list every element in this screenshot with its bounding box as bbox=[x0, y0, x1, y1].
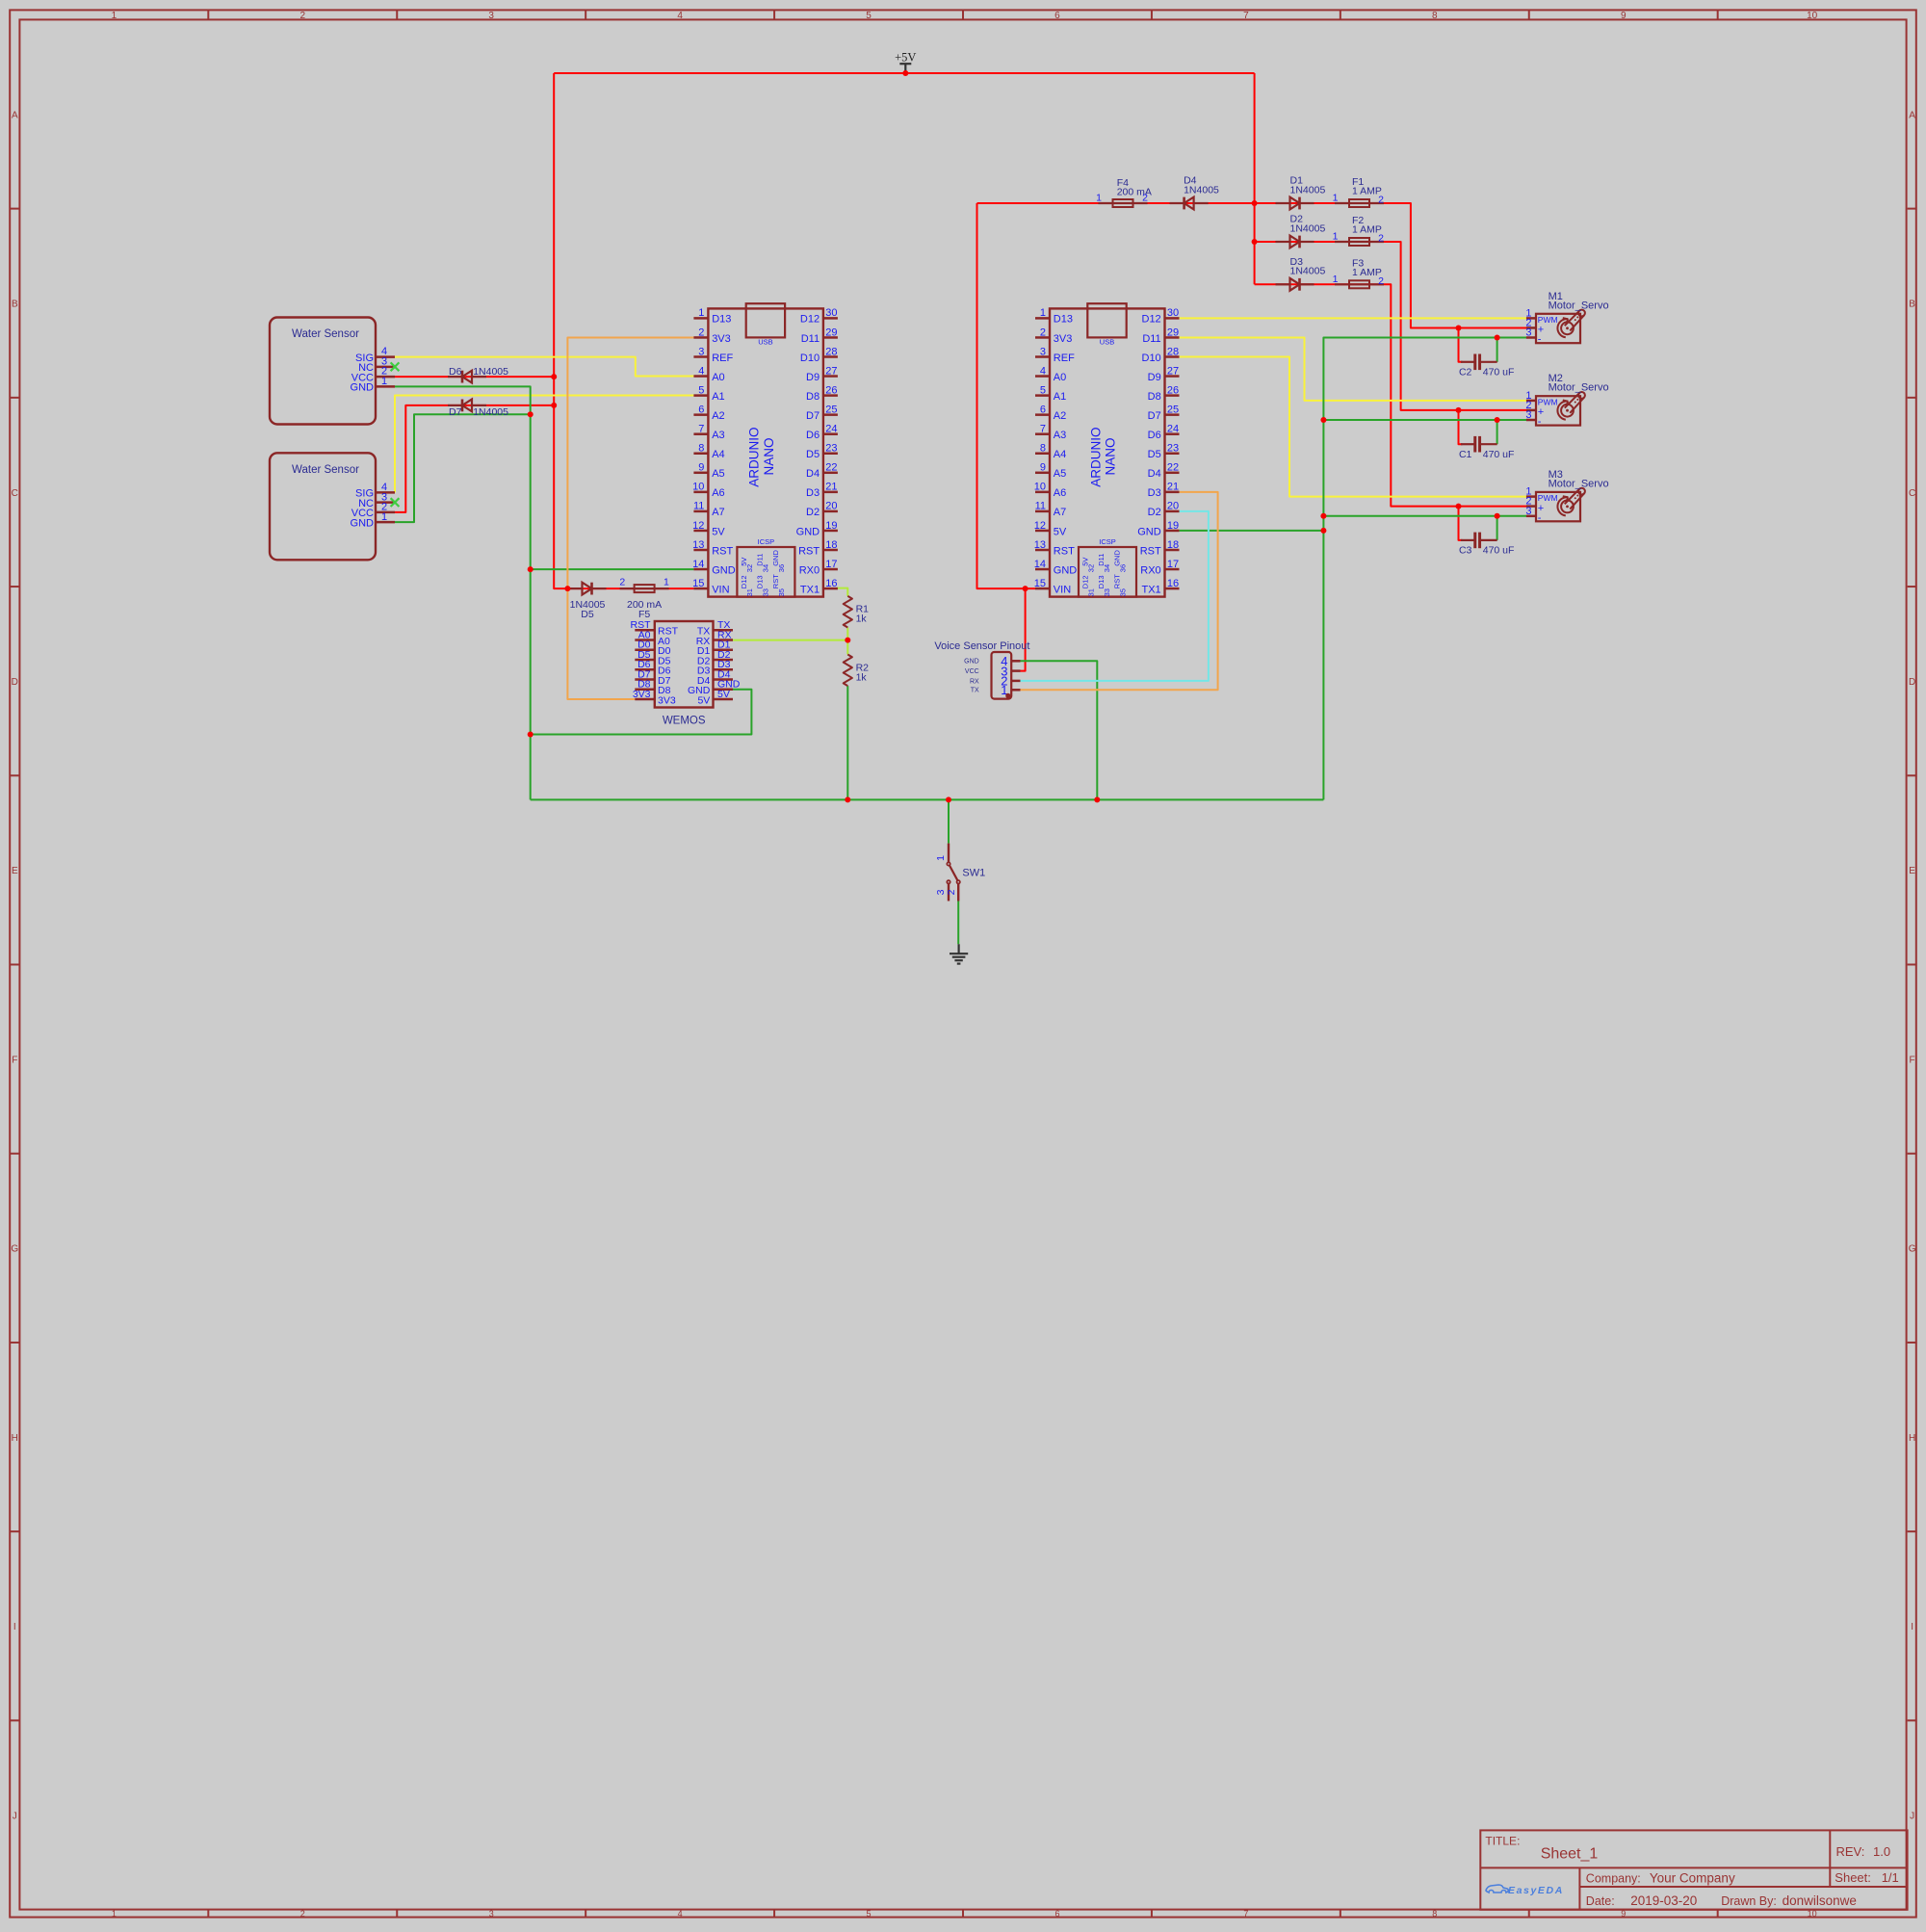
svg-text:3: 3 bbox=[1525, 506, 1531, 517]
junction D6/+5V bbox=[551, 374, 557, 379]
svg-text:D5: D5 bbox=[581, 609, 594, 620]
svg-text:Water Sensor: Water Sensor bbox=[292, 328, 359, 340]
svg-text:D12: D12 bbox=[1081, 575, 1090, 588]
ground symbol bbox=[950, 944, 968, 963]
svg-text:6: 6 bbox=[1040, 404, 1046, 415]
svg-text:19: 19 bbox=[1167, 520, 1179, 532]
svg-text:A3: A3 bbox=[1054, 430, 1066, 441]
svg-text:Voice Sensor Pinout: Voice Sensor Pinout bbox=[934, 640, 1029, 652]
wire +5V top rail bbox=[554, 72, 1254, 74]
svg-text:-: - bbox=[1538, 334, 1542, 346]
svg-text:F5: F5 bbox=[638, 609, 650, 620]
U2 pin 2 3V3 bbox=[1035, 336, 1050, 339]
svg-text:11: 11 bbox=[1035, 501, 1046, 512]
svg-text:2: 2 bbox=[946, 889, 957, 895]
U1 USB connector box bbox=[746, 303, 785, 337]
junction bus M3 bbox=[1320, 513, 1326, 519]
U2 pin 15 VIN bbox=[1035, 587, 1050, 590]
svg-text:D6: D6 bbox=[1148, 430, 1161, 441]
svg-text:D3: D3 bbox=[806, 487, 820, 499]
svg-text:D13: D13 bbox=[756, 575, 765, 588]
wire R1 to R2 node bbox=[846, 628, 848, 655]
wire Arduino2 GND to bus bbox=[1180, 530, 1324, 532]
svg-text:VIN: VIN bbox=[1054, 584, 1071, 595]
U2 pin 1 D13 bbox=[1035, 317, 1050, 320]
svg-text:WEMOS: WEMOS bbox=[663, 716, 706, 727]
U1 pin 30 D12 bbox=[823, 317, 838, 320]
svg-text:12: 12 bbox=[692, 520, 704, 532]
svg-text:5V: 5V bbox=[712, 526, 725, 537]
svg-text:1N4005: 1N4005 bbox=[1290, 222, 1326, 234]
IC U3 WEMOS bbox=[631, 619, 741, 726]
svg-text:F: F bbox=[12, 1055, 17, 1065]
U2 pin 16 TX1 bbox=[1165, 587, 1180, 590]
fuse F4 200 mA bbox=[1099, 199, 1148, 207]
svg-text:A5: A5 bbox=[1054, 468, 1066, 480]
svg-text:-: - bbox=[1538, 416, 1542, 428]
WEMOS pin D8 (left) bbox=[635, 689, 655, 692]
motor servo M1 bbox=[1525, 291, 1608, 346]
wire D10 to M3 PWM bbox=[1180, 357, 1526, 497]
svg-text:22: 22 bbox=[825, 462, 837, 474]
no-connect X on WS1 NC bbox=[391, 362, 400, 371]
svg-text:21: 21 bbox=[825, 482, 837, 493]
svg-text:25: 25 bbox=[1167, 404, 1179, 415]
wire +5V left drop to VIN row bbox=[554, 73, 693, 588]
svg-text:A: A bbox=[12, 110, 18, 120]
wire C1 branch green bbox=[1497, 420, 1498, 444]
svg-text:3: 3 bbox=[935, 889, 947, 895]
svg-text:EasyEDA: EasyEDA bbox=[1508, 1885, 1564, 1896]
svg-text:1: 1 bbox=[664, 577, 669, 588]
svg-text:+5V: +5V bbox=[895, 50, 916, 64]
motor servo M3 bbox=[1525, 469, 1608, 524]
U1 pin 20 D2 bbox=[823, 510, 838, 513]
svg-text:2: 2 bbox=[1378, 275, 1384, 287]
wire C3 branch green bbox=[1497, 516, 1498, 540]
svg-text:E: E bbox=[1909, 866, 1915, 876]
svg-text:Motor_Servo: Motor_Servo bbox=[1549, 300, 1609, 311]
svg-text:13: 13 bbox=[692, 539, 704, 551]
svg-text:D10: D10 bbox=[800, 352, 820, 364]
U2 pin 8 A4 bbox=[1035, 453, 1050, 456]
svg-text:ARDUNIO: ARDUNIO bbox=[747, 427, 762, 486]
svg-text:1: 1 bbox=[698, 307, 704, 319]
svg-text:1N4005: 1N4005 bbox=[1184, 185, 1219, 196]
IC U1 ARDUNIO NANO bbox=[692, 303, 838, 596]
junction VIN/3V3 crossing bbox=[564, 586, 570, 591]
WEMOS pin D5 (left) bbox=[635, 659, 655, 662]
svg-text:B: B bbox=[1909, 300, 1915, 310]
EasyEDA logo bbox=[1486, 1885, 1564, 1896]
svg-text:35: 35 bbox=[1118, 588, 1127, 596]
svg-text:donwilsonwe: donwilsonwe bbox=[1783, 1893, 1857, 1908]
svg-text:GND: GND bbox=[1137, 526, 1161, 537]
wire WS1 SIG to A0 bbox=[395, 357, 693, 377]
svg-text:1: 1 bbox=[1040, 307, 1046, 319]
U2 pin 25 D7 bbox=[1165, 413, 1180, 416]
svg-text:29: 29 bbox=[825, 326, 837, 338]
svg-text:J: J bbox=[1910, 1811, 1914, 1821]
svg-text:25: 25 bbox=[825, 404, 837, 415]
svg-text:A1: A1 bbox=[1054, 391, 1066, 403]
svg-text:A6: A6 bbox=[712, 487, 724, 499]
svg-text:G: G bbox=[11, 1244, 18, 1255]
water sensor WS1 bbox=[270, 318, 395, 425]
junction VIN2/voice VCC bbox=[1023, 586, 1028, 591]
svg-text:A4: A4 bbox=[712, 449, 724, 460]
svg-text:30: 30 bbox=[825, 307, 837, 319]
svg-text:TX: TX bbox=[971, 688, 979, 694]
svg-text:TX1: TX1 bbox=[1142, 584, 1161, 595]
wire Arduino1 GND bbox=[531, 568, 694, 570]
WEMOS pin D0 (left) bbox=[635, 649, 655, 652]
svg-text:10: 10 bbox=[1034, 482, 1046, 493]
svg-text:4: 4 bbox=[1040, 365, 1046, 377]
svg-text:RX0: RX0 bbox=[1140, 564, 1160, 576]
svg-text:36: 36 bbox=[777, 564, 786, 572]
svg-text:20: 20 bbox=[1167, 501, 1179, 512]
diode D3 1N4005 bbox=[1276, 278, 1314, 291]
U2 pin 18 RST bbox=[1165, 549, 1180, 552]
svg-text:1: 1 bbox=[112, 1909, 117, 1919]
junction C1 red bbox=[1456, 407, 1462, 413]
U1 pin 27 D9 bbox=[823, 375, 838, 378]
svg-text:36: 36 bbox=[1118, 564, 1127, 572]
svg-text:34: 34 bbox=[1103, 564, 1111, 572]
WEMOS pin A0 (left) bbox=[635, 639, 655, 641]
svg-text:35: 35 bbox=[777, 588, 786, 596]
svg-text:33: 33 bbox=[1103, 588, 1111, 596]
U2 pin 11 A7 bbox=[1035, 510, 1050, 513]
junction Arduino1 GND bbox=[528, 566, 534, 572]
U1 pin 13 RST bbox=[693, 549, 708, 552]
U2 pin 20 D2 bbox=[1165, 510, 1180, 513]
svg-text:C2: C2 bbox=[1459, 367, 1472, 379]
U2 pin 21 D3 bbox=[1165, 491, 1180, 494]
junction C1 green bbox=[1495, 417, 1500, 423]
svg-text:470 uF: 470 uF bbox=[1483, 367, 1515, 379]
svg-text:GND: GND bbox=[351, 382, 375, 394]
svg-text:5V: 5V bbox=[1054, 526, 1067, 537]
svg-text:2: 2 bbox=[698, 326, 704, 338]
resistor R1 1k bbox=[844, 596, 869, 628]
svg-text:16: 16 bbox=[825, 578, 837, 589]
svg-text:H: H bbox=[1909, 1433, 1915, 1444]
svg-text:D7: D7 bbox=[1148, 410, 1161, 422]
svg-text:GND: GND bbox=[351, 517, 375, 529]
svg-text:D4: D4 bbox=[1148, 468, 1161, 480]
svg-text:4: 4 bbox=[678, 1909, 683, 1919]
U2 pin 26 D8 bbox=[1165, 394, 1180, 397]
junction D-row2 bbox=[1252, 239, 1258, 245]
WEMOS pin RST (left) bbox=[635, 629, 655, 632]
svg-text:20: 20 bbox=[825, 501, 837, 512]
svg-text:2: 2 bbox=[300, 1909, 305, 1919]
junction C2 green bbox=[1495, 335, 1500, 341]
svg-text:GND: GND bbox=[964, 659, 979, 666]
svg-text:8: 8 bbox=[1040, 443, 1046, 455]
svg-text:A7: A7 bbox=[1054, 507, 1066, 518]
svg-text:GND: GND bbox=[796, 526, 820, 537]
svg-text:1: 1 bbox=[1333, 274, 1339, 285]
diode D2 1N4005 bbox=[1276, 236, 1314, 248]
U2 pin 9 A5 bbox=[1035, 472, 1050, 475]
svg-text:REV:: REV: bbox=[1836, 1844, 1865, 1859]
svg-text:12: 12 bbox=[1034, 520, 1046, 532]
svg-text:3: 3 bbox=[488, 11, 494, 21]
svg-text:32: 32 bbox=[1086, 564, 1095, 572]
svg-text:470 uF: 470 uF bbox=[1483, 449, 1515, 460]
wire C2 branch green bbox=[1497, 338, 1498, 362]
power flag +5V bbox=[895, 50, 916, 73]
junction +5V bbox=[902, 70, 908, 76]
svg-text:33: 33 bbox=[761, 588, 769, 596]
svg-text:RST: RST bbox=[1113, 574, 1122, 588]
wire R2 bottom to rail bbox=[846, 686, 848, 799]
title block bbox=[1480, 1830, 1907, 1909]
U1 pin 6 A2 bbox=[693, 413, 708, 416]
svg-text:4: 4 bbox=[677, 11, 683, 21]
wire WS2 SIG to A1 bbox=[395, 396, 693, 493]
svg-text:6: 6 bbox=[698, 404, 704, 415]
junction rail R2 bbox=[845, 796, 850, 802]
U1 ICSP header bbox=[737, 547, 794, 597]
svg-text:D13: D13 bbox=[712, 314, 731, 326]
U2 USB connector box bbox=[1087, 303, 1126, 337]
svg-text:7: 7 bbox=[1243, 1909, 1248, 1919]
svg-text:RST: RST bbox=[1140, 545, 1161, 557]
svg-text:ARDUNIO: ARDUNIO bbox=[1088, 427, 1103, 486]
U2 pin 10 A6 bbox=[1035, 491, 1050, 494]
svg-text:A5: A5 bbox=[712, 468, 724, 480]
motor servo M2 bbox=[1525, 373, 1608, 428]
svg-text:GND: GND bbox=[712, 564, 736, 576]
U1 pin 4 A0 bbox=[693, 375, 708, 378]
wire F4 row to Arduino2 VIN bbox=[977, 202, 1255, 204]
svg-text:9: 9 bbox=[698, 462, 704, 474]
svg-text:8: 8 bbox=[1432, 11, 1438, 21]
svg-text:VCC: VCC bbox=[965, 668, 979, 675]
svg-text:A1: A1 bbox=[712, 391, 724, 403]
U1 pin 18 RST bbox=[823, 549, 838, 552]
svg-text:1N4005: 1N4005 bbox=[1290, 184, 1326, 196]
svg-text:18: 18 bbox=[1167, 539, 1179, 551]
svg-text:1N4005: 1N4005 bbox=[473, 406, 508, 418]
svg-text:A2: A2 bbox=[712, 410, 724, 422]
svg-text:3: 3 bbox=[489, 1909, 494, 1919]
svg-text:D10: D10 bbox=[1142, 352, 1161, 364]
svg-text:1k: 1k bbox=[856, 614, 868, 625]
svg-text:A6: A6 bbox=[1054, 487, 1066, 499]
svg-text:A2: A2 bbox=[1054, 410, 1066, 422]
svg-text:D7: D7 bbox=[449, 406, 462, 418]
svg-text:1: 1 bbox=[381, 511, 387, 523]
U1 pin 29 D11 bbox=[823, 336, 838, 339]
svg-text:RST: RST bbox=[771, 574, 780, 588]
U2 pin 23 D5 bbox=[1165, 453, 1180, 456]
svg-text:5V: 5V bbox=[717, 689, 730, 700]
svg-text:D5: D5 bbox=[1148, 449, 1161, 460]
svg-text:USB: USB bbox=[1100, 338, 1114, 347]
WEMOS pin D7 (left) bbox=[635, 678, 655, 681]
svg-text:11: 11 bbox=[693, 501, 704, 512]
WEMOS pin 5V (right) bbox=[714, 698, 734, 701]
svg-text:H: H bbox=[12, 1433, 18, 1444]
junction bus M2 bbox=[1320, 417, 1326, 423]
capacitor C3 470 uF bbox=[1459, 533, 1515, 557]
svg-text:3: 3 bbox=[1525, 409, 1531, 421]
svg-text:17: 17 bbox=[1167, 559, 1179, 570]
svg-text:A: A bbox=[1909, 110, 1915, 120]
svg-text:1N4005: 1N4005 bbox=[473, 366, 508, 378]
svg-text:C1: C1 bbox=[1459, 449, 1472, 460]
U2 pin 30 D12 bbox=[1165, 317, 1180, 320]
svg-text:D11: D11 bbox=[1097, 554, 1106, 566]
U1 pin 9 A5 bbox=[693, 472, 708, 475]
svg-text:15: 15 bbox=[1034, 578, 1046, 589]
svg-text:1: 1 bbox=[1333, 193, 1339, 204]
svg-text:24: 24 bbox=[825, 424, 837, 435]
svg-text:26: 26 bbox=[825, 384, 837, 396]
svg-text:2: 2 bbox=[1378, 195, 1384, 206]
svg-text:1/1: 1/1 bbox=[1882, 1870, 1899, 1885]
svg-text:D12: D12 bbox=[1142, 314, 1161, 326]
svg-text:2019-03-20: 2019-03-20 bbox=[1630, 1893, 1697, 1908]
svg-text:RX: RX bbox=[970, 678, 979, 685]
svg-text:USB: USB bbox=[758, 338, 772, 347]
U1 pin 22 D4 bbox=[823, 472, 838, 475]
svg-text:D: D bbox=[12, 677, 18, 688]
svg-text:9: 9 bbox=[1040, 462, 1046, 474]
svg-text:D5: D5 bbox=[806, 449, 820, 460]
U2 pin 28 D10 bbox=[1165, 355, 1180, 358]
wire SW1 top bbox=[948, 799, 950, 843]
svg-text:D11: D11 bbox=[756, 554, 765, 566]
svg-text:C: C bbox=[1909, 488, 1915, 499]
fuse F2 1 AMP bbox=[1335, 238, 1384, 246]
svg-text:D11: D11 bbox=[1142, 333, 1160, 345]
wire D3 F3 row to M3+ bbox=[1255, 284, 1526, 506]
svg-text:NANO: NANO bbox=[1104, 437, 1118, 475]
svg-text:22: 22 bbox=[1167, 462, 1179, 474]
WEMOS pin TX (right) bbox=[714, 629, 734, 632]
svg-text:6: 6 bbox=[1054, 11, 1060, 21]
U1 pin 24 D6 bbox=[823, 432, 838, 435]
U2 pin 13 RST bbox=[1035, 549, 1050, 552]
svg-text:PWM: PWM bbox=[1538, 493, 1558, 503]
diode D7 1N4005 bbox=[448, 400, 486, 412]
junction WS2 GND bbox=[528, 411, 534, 417]
U1 pin 2 3V3 bbox=[693, 336, 708, 339]
svg-text:ICSP: ICSP bbox=[758, 537, 775, 546]
svg-text:15: 15 bbox=[692, 578, 704, 589]
svg-text:C: C bbox=[12, 488, 18, 499]
U2 pin 24 D6 bbox=[1165, 432, 1180, 435]
wire D1 F1 row to M1+ bbox=[1255, 203, 1526, 327]
svg-text:5: 5 bbox=[867, 1909, 872, 1919]
svg-text:7: 7 bbox=[1243, 11, 1249, 21]
svg-text:D6: D6 bbox=[449, 366, 462, 378]
svg-text:F: F bbox=[1910, 1055, 1915, 1065]
U2 pin 12 5V bbox=[1035, 530, 1050, 533]
svg-text:13: 13 bbox=[1034, 539, 1046, 551]
svg-text:6: 6 bbox=[1054, 1909, 1059, 1919]
IC U2 ARDUNIO NANO bbox=[1034, 303, 1180, 596]
junction WEMOS GND bbox=[528, 732, 534, 738]
svg-text:SW1: SW1 bbox=[962, 868, 985, 879]
svg-text:1: 1 bbox=[935, 855, 947, 861]
svg-text:D8: D8 bbox=[806, 391, 820, 403]
wire M2 minus bbox=[1323, 419, 1526, 421]
WEMOS pin GND (right) bbox=[714, 689, 734, 692]
svg-text:8: 8 bbox=[1432, 1909, 1437, 1919]
wire C3 branch red bbox=[1459, 507, 1463, 540]
wire voice GND to rail bbox=[1021, 661, 1098, 799]
svg-text:32: 32 bbox=[745, 564, 754, 572]
svg-text:16: 16 bbox=[1167, 578, 1179, 589]
U1 pin 17 RX0 bbox=[823, 568, 838, 571]
wire SW1 to ground bbox=[957, 901, 959, 945]
svg-text:B: B bbox=[12, 300, 18, 310]
svg-text:27: 27 bbox=[825, 365, 837, 377]
svg-text:D9: D9 bbox=[1148, 372, 1161, 383]
svg-text:E: E bbox=[12, 866, 18, 876]
wire D11 to M2 PWM bbox=[1180, 337, 1526, 400]
U1 pin 15 VIN bbox=[693, 587, 708, 590]
svg-text:1.0: 1.0 bbox=[1873, 1844, 1890, 1859]
U1 pin 7 A3 bbox=[693, 432, 708, 435]
U1 pin 1 D13 bbox=[693, 317, 708, 320]
U1 pin 28 D10 bbox=[823, 355, 838, 358]
junction C2 red bbox=[1456, 325, 1462, 330]
svg-text:2: 2 bbox=[1378, 233, 1384, 245]
WEMOS pin 3V3 (left) bbox=[635, 698, 655, 701]
WEMOS pin D6 (left) bbox=[635, 668, 655, 671]
water sensor WS2 bbox=[270, 453, 395, 560]
svg-text:8: 8 bbox=[698, 443, 704, 455]
switch SW1 bbox=[935, 844, 985, 901]
svg-text:30: 30 bbox=[1167, 307, 1179, 319]
svg-text:TX1: TX1 bbox=[800, 584, 820, 595]
fuse F3 1 AMP bbox=[1335, 280, 1384, 288]
svg-text:19: 19 bbox=[825, 520, 837, 532]
U2 pin 17 RX0 bbox=[1165, 568, 1180, 571]
junction C3 green bbox=[1495, 513, 1500, 519]
svg-text:26: 26 bbox=[1167, 384, 1179, 396]
wire WS1 VCC to +5V bbox=[395, 376, 554, 378]
wire 3V3 to WEMOS 3V3 bbox=[567, 337, 693, 699]
wire WS2 GND join bbox=[395, 414, 531, 522]
svg-text:D7: D7 bbox=[806, 410, 820, 422]
svg-text:1: 1 bbox=[112, 11, 117, 21]
svg-text:3V3: 3V3 bbox=[658, 694, 676, 706]
svg-text:-: - bbox=[1538, 512, 1542, 524]
svg-text:31: 31 bbox=[745, 588, 754, 596]
capacitor C1 470 uF bbox=[1459, 436, 1515, 460]
U1 pin 3 REF bbox=[693, 355, 708, 358]
svg-text:28: 28 bbox=[825, 346, 837, 357]
svg-text:3: 3 bbox=[698, 346, 704, 357]
svg-text:18: 18 bbox=[825, 539, 837, 551]
wire WS2 VCC to +5V bbox=[395, 405, 554, 512]
fuse F1 1 AMP bbox=[1335, 199, 1384, 207]
svg-text:RX0: RX0 bbox=[799, 564, 820, 576]
svg-text:10: 10 bbox=[1807, 11, 1818, 21]
svg-text:4: 4 bbox=[698, 365, 704, 377]
U1 pin 5 A1 bbox=[693, 394, 708, 397]
svg-text:Drawn By:: Drawn By: bbox=[1721, 1894, 1777, 1908]
